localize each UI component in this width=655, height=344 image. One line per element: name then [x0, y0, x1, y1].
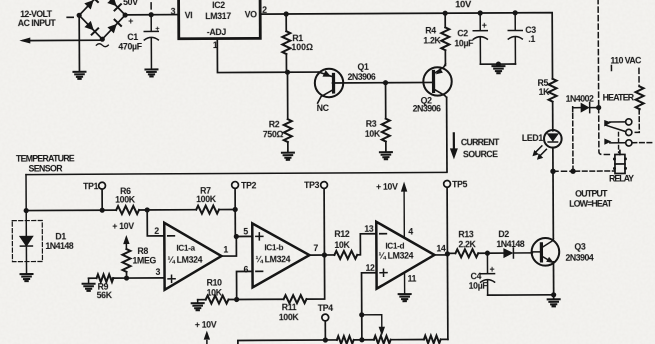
wire Q3 collector	[552, 171, 554, 239]
node C3 top	[513, 10, 518, 15]
TP2	[232, 182, 239, 237]
heater resistor	[636, 86, 644, 109]
dashed contact bottom lead	[632, 142, 652, 144]
wire R11 feedback	[306, 257, 324, 299]
svg-text:IC1-b: IC1-b	[264, 243, 283, 252]
svg-text:AC INPUT: AC INPUT	[18, 18, 57, 28]
TP1	[99, 182, 106, 210]
resistor R13	[455, 249, 503, 257]
resistor bottom B	[424, 336, 441, 344]
ground D1	[21, 274, 33, 281]
node pot left	[359, 337, 364, 342]
svg-text:+ 10V: + 10V	[112, 221, 134, 231]
svg-text:2.2K: 2.2K	[458, 239, 476, 249]
svg-text:100K: 100K	[115, 195, 136, 205]
bridge diode D-upper-left	[84, 0, 93, 10]
wire IC1-a output	[221, 236, 252, 256]
bridge diode D-upper-right bar	[115, 4, 121, 10]
svg-text:100Ω: 100Ω	[291, 42, 313, 52]
wire bridge to C1 to LM317 VI	[125, 14, 178, 16]
svg-text:¼ LM324: ¼ LM324	[167, 255, 202, 265]
wire pin2 IC1-a	[147, 210, 164, 236]
wire LED1 to rail	[552, 147, 554, 170]
bridge diode D-lower-left	[84, 21, 93, 31]
svg-text:3: 3	[155, 267, 160, 277]
dashed 110VAC second lead stub	[610, 66, 612, 71]
wire Q1 base to Q2 base	[333, 81, 433, 84]
svg-text:+ 10V: + 10V	[376, 182, 398, 192]
sensor rail wire	[26, 172, 447, 174]
wire IC1-d output	[434, 253, 455, 255]
relay linkage dashed	[617, 132, 619, 152]
node R8 bottom	[124, 275, 129, 280]
dashed mains line left	[598, 0, 612, 155]
op-amp IC1-b	[252, 223, 309, 287]
wiper arm to pot	[362, 315, 385, 336]
wire C2 C3 bottoms	[480, 63, 515, 65]
wire rail left drop	[25, 175, 27, 211]
IC1-a plus sign	[168, 275, 175, 282]
svg-text:11: 11	[408, 274, 417, 284]
D1 dashed box	[12, 220, 42, 261]
svg-text:2N3906: 2N3906	[413, 103, 441, 113]
svg-text:10K: 10K	[207, 288, 223, 298]
svg-text:TP1: TP1	[83, 181, 99, 191]
svg-text:10V: 10V	[455, 0, 472, 10]
svg-text:C2: C2	[457, 28, 468, 38]
relay coil	[613, 150, 627, 173]
node bridge right vertex	[123, 12, 128, 17]
node emitter ground	[551, 292, 556, 297]
ground R2	[282, 153, 294, 160]
wire AC arrowhead	[19, 38, 30, 44]
wire AC input lead with arrow	[23, 39, 102, 41]
svg-text:D2: D2	[498, 229, 509, 239]
svg-text:+: +	[489, 264, 494, 274]
relay contact top	[626, 119, 632, 125]
svg-text:Q3: Q3	[574, 242, 586, 252]
node bridge left vertex	[77, 13, 82, 18]
IC1-d pin4 +10V arrow	[401, 182, 408, 238]
node pin5	[234, 234, 239, 239]
diode D2 1N4148	[503, 248, 532, 258]
ground R10	[192, 300, 204, 311]
ground R3	[380, 152, 392, 159]
svg-text:TP5: TP5	[452, 179, 468, 189]
svg-text:10K: 10K	[334, 240, 350, 250]
svg-text:IC2: IC2	[212, 0, 225, 10]
relay arm 2	[604, 138, 625, 144]
resistor R11	[284, 295, 307, 303]
svg-text:50V: 50V	[123, 0, 138, 7]
bridge diode D-upper-right	[107, 0, 116, 6]
resistor R7	[196, 206, 219, 214]
svg-text:TP4: TP4	[318, 303, 334, 313]
node R3 top	[383, 80, 388, 85]
potentiometer bottom	[374, 336, 391, 344]
wire R5 to LED1	[552, 102, 554, 131]
svg-text:100K: 100K	[196, 194, 217, 204]
resistor R6	[116, 206, 139, 214]
svg-text:+: +	[482, 20, 487, 30]
resistor R5	[549, 79, 557, 102]
svg-text:1N4002: 1N4002	[566, 94, 594, 104]
svg-text:1N4148: 1N4148	[496, 239, 524, 249]
node D3 bottom	[570, 168, 575, 173]
relay arm 1	[604, 120, 626, 132]
bridge diode D-upper-left bar	[91, 0, 97, 2]
svg-text:470µF: 470µF	[118, 41, 142, 51]
IC1-d plus sign	[380, 269, 387, 276]
transistor Q1	[315, 69, 344, 103]
wire C4 to emitter	[488, 294, 554, 296]
svg-text:¼ LM324: ¼ LM324	[255, 254, 290, 264]
resistor R2	[283, 72, 291, 152]
svg-text:1N4148: 1N4148	[45, 241, 73, 251]
wire bridge left vertex to ground	[78, 15, 80, 70]
resistor R10	[198, 295, 237, 303]
node R4 top	[443, 11, 448, 16]
wire Q3 emitter	[552, 262, 554, 299]
op-amp IC1-a	[164, 223, 221, 290]
svg-text:5: 5	[243, 226, 248, 236]
svg-text:100K: 100K	[279, 312, 300, 322]
resistor R8	[122, 249, 130, 278]
svg-text:10K: 10K	[365, 129, 381, 139]
svg-text:+: +	[128, 16, 133, 26]
svg-text:IC1-d: IC1-d	[385, 242, 404, 251]
svg-text:1: 1	[213, 40, 218, 50]
diode D1 sensor	[20, 211, 32, 274]
+10V arrow R8	[123, 235, 129, 249]
node pin6 R10	[234, 297, 239, 302]
svg-text:1K: 1K	[539, 87, 551, 97]
node D3 cathode mains	[596, 105, 601, 110]
wire pin3 IC1-a	[127, 277, 165, 279]
wire pin6 IC1-b	[237, 271, 253, 299]
svg-text:3: 3	[171, 6, 176, 16]
IC1-b minus sign	[256, 270, 262, 272]
svg-text:TEMPERATURE: TEMPERATURE	[16, 153, 75, 163]
node TP5 output	[445, 251, 450, 256]
bridge diode D-lower-right	[107, 24, 116, 34]
svg-text:1.2K: 1.2K	[423, 35, 441, 45]
relay contact bottom	[626, 140, 632, 146]
IC1-d pin11 ground	[399, 273, 411, 302]
IC1-d minus sign	[380, 233, 386, 235]
svg-text:2N3904: 2N3904	[565, 253, 593, 263]
LED1	[544, 130, 562, 148]
ground C1	[145, 69, 157, 76]
node bridge bottom vertex	[100, 37, 105, 42]
svg-text:LM317: LM317	[205, 11, 231, 21]
svg-text:SENSOR: SENSOR	[28, 163, 63, 173]
svg-text:+ 10V: + 10V	[195, 320, 217, 330]
IC2 LM317 box	[179, 0, 261, 39]
svg-text:.1: .1	[528, 34, 535, 44]
svg-text:R2: R2	[269, 119, 280, 129]
svg-text:110 VAC: 110 VAC	[610, 55, 642, 65]
diode D3 1N4002	[573, 103, 599, 169]
bridge diode D-lower-right bar	[115, 20, 121, 26]
wire Q2 collector to sensor rail	[446, 97, 448, 171]
capacitor C3	[508, 13, 522, 64]
dashed wire LED node to D3 node	[553, 170, 573, 172]
node C2 top	[478, 10, 483, 15]
svg-text:Q1: Q1	[357, 62, 369, 72]
svg-text:2: 2	[154, 226, 159, 236]
resistor R3	[382, 83, 390, 152]
svg-text:13: 13	[364, 224, 374, 234]
resistor R1	[282, 14, 290, 72]
svg-text:CURRENT: CURRENT	[461, 137, 500, 147]
bottom wire	[238, 339, 448, 344]
svg-text:HEATER: HEATER	[603, 92, 635, 102]
svg-text:LOW=HEAT: LOW=HEAT	[569, 199, 613, 209]
dashed heater to contact	[632, 109, 639, 132]
ground bridge	[73, 72, 85, 79]
ground R9	[83, 278, 95, 291]
node TP2	[233, 207, 238, 212]
svg-text:56K: 56K	[97, 290, 113, 300]
relay contact middle	[626, 129, 632, 135]
ground Q3	[548, 299, 560, 306]
TP3	[321, 182, 328, 255]
svg-text:2: 2	[262, 5, 267, 15]
transistor Q3	[532, 238, 560, 266]
svg-text:12: 12	[365, 263, 375, 273]
svg-text:1MEG: 1MEG	[132, 255, 156, 265]
node TP4	[323, 337, 328, 342]
svg-text:R13: R13	[458, 229, 474, 239]
wire LM317 ADJ pin	[217, 38, 317, 73]
svg-text:4: 4	[408, 227, 413, 237]
wire 10V rail from VO	[260, 13, 552, 81]
bridge rectifier BR1 outline	[79, 0, 125, 39]
node ground tap	[496, 61, 501, 66]
wire R10 to R11	[237, 298, 284, 300]
svg-text:10µF: 10µF	[469, 281, 489, 291]
svg-text:¼ LM324: ¼ LM324	[378, 251, 413, 261]
svg-text:SOURCE: SOURCE	[463, 149, 498, 159]
svg-text:2N3906: 2N3906	[347, 72, 375, 82]
dashed rail to coil	[575, 170, 614, 172]
node wiper branch	[359, 312, 364, 317]
svg-text:R10: R10	[207, 278, 223, 288]
bridge diode D-lower-left bar	[92, 28, 99, 34]
svg-text:TP3: TP3	[304, 180, 320, 190]
current source arrow	[450, 133, 458, 159]
svg-text:1: 1	[223, 245, 228, 255]
op-amp IC1-d	[376, 221, 434, 288]
node R6 R7 junction	[145, 207, 150, 212]
svg-text:10µF: 10µF	[454, 38, 474, 48]
svg-text:7: 7	[313, 243, 318, 253]
svg-text:6: 6	[243, 264, 248, 274]
svg-text:TP2: TP2	[241, 180, 257, 190]
capacitor C4	[480, 253, 494, 295]
svg-text:-ADJ: -ADJ	[207, 27, 227, 37]
svg-text:R12: R12	[334, 229, 350, 239]
LED1 emission arrows	[532, 146, 546, 160]
svg-text:R11: R11	[282, 302, 297, 312]
dashed 110VAC lead	[638, 68, 640, 86]
wire TP5 to bottom	[446, 254, 448, 339]
node R13 C4 D2	[485, 251, 490, 256]
TP5	[444, 180, 451, 253]
transistor Q2	[423, 64, 452, 98]
svg-text:R4: R4	[425, 25, 436, 35]
wire IC1-b output	[309, 254, 334, 256]
minus label at bridge	[67, 16, 73, 18]
ground C2 C3	[492, 66, 504, 73]
resistor R9	[89, 274, 127, 282]
svg-text:750Ω: 750Ω	[263, 129, 284, 139]
svg-text:RELAY: RELAY	[609, 173, 634, 183]
svg-text:NC: NC	[317, 103, 330, 113]
svg-text:VO: VO	[245, 9, 258, 19]
svg-text:R3: R3	[366, 119, 377, 129]
node R1 top	[284, 11, 289, 16]
resistor bottom A	[337, 336, 354, 344]
svg-text:OUTPUT: OUTPUT	[575, 189, 608, 199]
svg-text:IC1-a: IC1-a	[176, 244, 195, 253]
wire pin12 IC1-d	[362, 273, 377, 340]
IC1-a minus sign	[168, 235, 174, 237]
capacitor C2	[473, 13, 487, 64]
node output7	[322, 252, 327, 257]
node TP1	[100, 208, 105, 213]
tick above node	[150, 3, 152, 9]
IC1-b plus sign	[256, 233, 263, 240]
TP4	[322, 314, 329, 340]
node ADJ junction	[285, 70, 290, 75]
node C1 top	[149, 12, 154, 17]
resistor R12	[334, 234, 376, 259]
capacitor C1	[144, 15, 158, 69]
svg-text:VI: VI	[185, 10, 193, 20]
resistor R4	[441, 13, 449, 65]
AC tilde mark	[96, 44, 108, 47]
node LED1 on rail	[550, 169, 555, 174]
node sensor left	[24, 208, 29, 213]
wire sensor lower	[26, 209, 235, 210]
svg-text:14: 14	[436, 243, 446, 253]
svg-text:LED1: LED1	[522, 133, 544, 143]
+10V arrow bottom	[204, 331, 210, 344]
